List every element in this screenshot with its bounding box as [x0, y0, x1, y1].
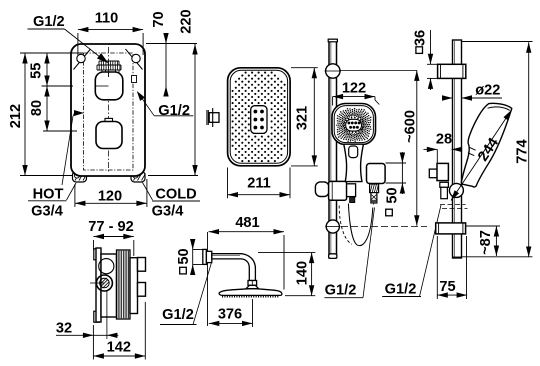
svg-text:774: 774: [514, 138, 530, 163]
svg-text:28: 28: [436, 132, 452, 148]
svg-text:55: 55: [29, 63, 45, 79]
svg-text:80: 80: [29, 100, 45, 116]
svg-text:ø22: ø22: [475, 83, 500, 99]
svg-text:211: 211: [247, 176, 271, 192]
svg-text:50: 50: [176, 248, 192, 264]
svg-text:HOT: HOT: [33, 187, 64, 203]
svg-text:321: 321: [295, 106, 311, 130]
svg-text:110: 110: [95, 11, 119, 27]
svg-text:70: 70: [151, 11, 167, 27]
svg-text:481: 481: [235, 215, 259, 231]
svg-text:120: 120: [98, 189, 122, 205]
svg-text:G1/2: G1/2: [33, 14, 65, 30]
svg-text:G1/2: G1/2: [158, 103, 190, 119]
svg-text:140: 140: [295, 261, 311, 285]
svg-text:376: 376: [218, 307, 242, 323]
svg-text:G3/4: G3/4: [152, 204, 185, 220]
svg-text:77 - 92: 77 - 92: [88, 219, 133, 235]
svg-text:COLD: COLD: [155, 187, 196, 203]
svg-text:G1/2: G1/2: [162, 307, 194, 323]
svg-text:122: 122: [342, 81, 366, 97]
svg-text:~87: ~87: [478, 230, 494, 255]
svg-text:50: 50: [385, 187, 401, 203]
svg-text:32: 32: [56, 321, 72, 337]
svg-text:36: 36: [413, 30, 429, 46]
svg-text:G3/4: G3/4: [31, 204, 64, 220]
svg-text:212: 212: [8, 104, 24, 128]
svg-text:142: 142: [107, 340, 131, 356]
svg-text:220: 220: [179, 9, 195, 33]
svg-text:~600: ~600: [402, 110, 418, 143]
svg-text:G1/2: G1/2: [385, 282, 417, 298]
svg-text:G1/2: G1/2: [325, 283, 357, 299]
